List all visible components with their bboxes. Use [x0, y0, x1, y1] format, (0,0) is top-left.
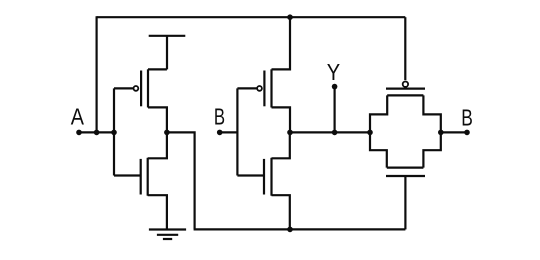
transistor Q6 NMOS transmission gate: [370, 132, 441, 176]
wire bottom rail: [194, 228, 406, 230]
wire B gate bus: [236, 88, 238, 175]
node A gate junction: [111, 130, 117, 136]
wire A input: [79, 131, 114, 133]
wire TG PMOS gate from top rail: [404, 17, 406, 80]
terminal Y: [332, 84, 338, 90]
transistor Q5 PMOS transmission gate: [370, 82, 441, 133]
svg-text:A: A: [71, 104, 85, 130]
wire left output to bottom rail: [167, 132, 195, 229]
node TG right: [438, 130, 444, 136]
transistor Q2 NMOS left inverter: [114, 132, 167, 229]
transistor Q1 PMOS left inverter: [114, 69, 167, 132]
transistor Q4 NMOS middle inverter: [237, 132, 289, 229]
svg-text:Y: Y: [327, 59, 340, 85]
node left inverter output: [164, 130, 170, 136]
wire A gate bus: [113, 88, 115, 175]
terminal B input: [217, 130, 223, 136]
wire Y branch: [334, 87, 336, 133]
wire B input: [220, 131, 238, 133]
wire left rail A to top: [95, 16, 97, 132]
wire TG output: [441, 131, 467, 133]
svg-text:B: B: [214, 104, 225, 130]
node bottom rail junction: [287, 227, 293, 233]
wire top rail: [97, 16, 406, 18]
terminal A: [76, 130, 82, 136]
node top rail junction: [287, 14, 293, 20]
node Y junction: [332, 130, 338, 136]
node middle inverter output: [287, 130, 293, 136]
node A rail junction: [94, 130, 100, 136]
svg-text:B: B: [461, 104, 473, 130]
ground: [149, 230, 186, 240]
node TG left: [367, 130, 373, 136]
wire TG NMOS gate to bottom rail: [404, 176, 406, 229]
terminal B output: [464, 130, 470, 136]
transistor Q3 PMOS middle inverter: [237, 17, 290, 132]
wire middle output to transmission gate: [290, 131, 370, 133]
power VDD: [149, 36, 186, 70]
